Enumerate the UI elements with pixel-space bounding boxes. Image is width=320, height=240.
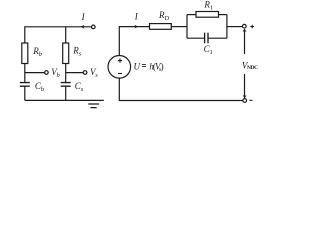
svg-text:): ) <box>161 61 164 71</box>
svg-text:NDC: NDC <box>247 65 258 71</box>
svg-text:1: 1 <box>210 4 213 11</box>
svg-text:U: U <box>134 62 141 72</box>
svg-text:1: 1 <box>210 49 213 56</box>
svg-text:D: D <box>165 15 170 22</box>
